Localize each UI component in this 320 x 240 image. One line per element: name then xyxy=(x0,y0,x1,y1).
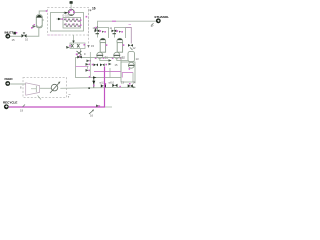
svg-text:15: 15 xyxy=(91,44,95,48)
vertical line from condenser area down xyxy=(84,52,90,78)
wire exchanger bottom to mid units xyxy=(72,35,74,44)
label on feed line xyxy=(20,85,22,89)
svg-text:10: 10 xyxy=(25,38,29,42)
arrow into pump circle xyxy=(64,12,69,14)
junction arrow down to line xyxy=(88,76,95,89)
long process line to separation train xyxy=(60,86,136,88)
valve on line (first) xyxy=(100,80,107,87)
mid unit box B xyxy=(121,62,135,82)
material stream FEED xyxy=(5,77,14,86)
svg-text:17: 17 xyxy=(151,24,155,28)
material stream OUTLET xyxy=(151,15,170,28)
interior valve row xyxy=(92,63,118,67)
vessel side nozzle tick xyxy=(42,19,44,21)
svg-text:16: 16 xyxy=(90,114,94,118)
inner unit box (heat-exchange group) xyxy=(51,13,84,32)
svg-text:RECYCLE: RECYCLE xyxy=(3,101,17,105)
label near envelope corner xyxy=(68,95,71,100)
wire valve to vessel bottom xyxy=(27,28,39,36)
reflux drum vessel xyxy=(128,52,139,70)
svg-text:15: 15 xyxy=(12,38,16,42)
icon below top edge xyxy=(87,60,92,63)
recycle operation (circle with arrow) xyxy=(50,82,60,94)
wire inlet to valve xyxy=(10,35,22,37)
svg-text:13: 13 xyxy=(136,57,140,61)
tear arrow on product corner xyxy=(94,27,98,31)
svg-text:16: 16 xyxy=(92,7,96,11)
arrow into exchanger xyxy=(57,18,63,21)
svg-text:B2: B2 xyxy=(122,56,126,60)
svg-text:E-100: E-100 xyxy=(63,14,70,18)
connector dot near box edge xyxy=(86,16,88,18)
dashed tear arrow exiting top-right xyxy=(89,7,96,12)
svg-text:ETHANOL: ETHANOL xyxy=(155,15,170,19)
svg-text:19: 19 xyxy=(20,109,24,113)
small valve on box top xyxy=(77,56,82,59)
material stream RECYCLE xyxy=(3,101,17,110)
energy stream to pump xyxy=(70,1,73,11)
column C-2 condenser loop xyxy=(110,27,126,38)
tiny unit above inlet line xyxy=(13,32,17,35)
wire vessel top to exchanger box xyxy=(39,10,47,14)
column C-1 condenser loop xyxy=(93,27,109,38)
mid exchanger pair xyxy=(66,43,85,49)
compressor K-100 xyxy=(26,83,52,95)
wire feed to compressor xyxy=(10,83,26,85)
distillate line col2 to drum xyxy=(126,25,132,44)
pump/compressor circle K-1 xyxy=(68,9,74,15)
mid unit box A xyxy=(76,58,122,78)
small unit on recycle line xyxy=(96,105,100,108)
svg-text:INLET: INLET xyxy=(5,31,14,35)
arrow on box bottom xyxy=(93,76,97,78)
material stream INLET xyxy=(5,31,16,43)
arrow into vessel side with stream dots xyxy=(31,24,36,29)
interior magenta headers xyxy=(94,67,133,83)
magenta recycle line xyxy=(9,67,112,108)
side valve on drum line xyxy=(128,44,136,50)
svg-text:FEED: FEED xyxy=(5,77,14,81)
dashed envelope (bottom) xyxy=(23,78,67,100)
dashed recycle envelope (top) xyxy=(48,8,89,36)
arrow label near recycle corner xyxy=(89,109,94,117)
svg-text:w5.0: w5.0 xyxy=(109,80,115,84)
valve on line (second) xyxy=(109,80,125,87)
heat exchanger E-100 xyxy=(63,14,82,29)
valve on line (third) xyxy=(128,80,136,87)
mixer node below xyxy=(76,49,82,58)
valve V-101 xyxy=(22,33,29,42)
tick and label on recycle line xyxy=(20,105,25,113)
interior magenta header left xyxy=(76,66,89,68)
interior icon stack xyxy=(86,63,91,72)
product line to outlet xyxy=(98,21,157,30)
vertical dashed tear line xyxy=(87,9,94,48)
distillation column C-2 xyxy=(112,38,128,60)
separator vessel V-100 xyxy=(36,15,42,28)
distillation column C-1 xyxy=(95,38,112,61)
